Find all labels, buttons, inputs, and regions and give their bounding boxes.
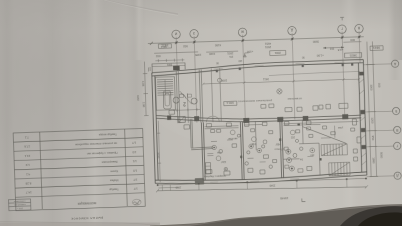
chain node squares — [157, 178, 367, 186]
secondary dim chain segments — [154, 52, 198, 53]
svg-text:+4,8: +4,8 — [337, 48, 343, 52]
boxed label right — [345, 53, 362, 58]
svg-text:900: 900 — [350, 38, 355, 42]
svg-text:3Ф21: 3Ф21 — [373, 46, 381, 50]
upper partitions — [176, 68, 221, 123]
header symbol right — [132, 199, 141, 205]
left end small dim marks — [158, 184, 178, 190]
svg-text:14,7: 14,7 — [25, 191, 31, 195]
bottom dimension line2 — [156, 179, 368, 195]
box below midwall — [184, 125, 190, 129]
svg-text:экспликация: экспликация — [78, 201, 97, 206]
right dim texts rotated — [369, 83, 384, 164]
svg-text:З: З — [193, 31, 195, 35]
main top dimension line — [148, 37, 364, 44]
svg-text:1/2: 1/2 — [133, 168, 137, 172]
svg-text:1890: 1890 — [220, 79, 227, 83]
label box L4 — [224, 101, 237, 106]
right stair lower — [329, 162, 350, 176]
table frame — [13, 128, 145, 210]
label box L1 — [158, 43, 171, 48]
svg-text:Г: Г — [341, 26, 343, 30]
equipment circles left room — [212, 143, 298, 174]
small circle near hall dim — [217, 78, 221, 82]
right vertical dim lines — [365, 41, 378, 176]
svg-text:002: 002 — [155, 54, 160, 58]
equipment rects — [204, 119, 362, 176]
dark fixture dots — [213, 123, 322, 170]
right axis circle B2 — [392, 107, 399, 114]
window sills top wall — [214, 62, 345, 69]
table column lines — [40, 129, 128, 209]
bottom shadow under paper edge — [150, 205, 402, 227]
svg-text:2020: 2020 — [156, 152, 160, 159]
entrance door dark block bottom wall — [195, 178, 204, 184]
lower-left partition — [190, 118, 213, 149]
right stair upper — [321, 144, 347, 156]
room number bubbles — [215, 127, 315, 160]
svg-text:Тамбур: Тамбур — [109, 188, 119, 192]
tiny ET mark top right — [340, 17, 344, 20]
svg-text:13,1: 13,1 — [24, 154, 30, 158]
axis circle A3 — [238, 28, 247, 37]
svg-text:3Ф21: 3Ф21 — [349, 53, 357, 57]
bottom edge dim left — [0, 223, 160, 227]
top dimension ticks — [150, 35, 361, 45]
right wall axis node blocks — [359, 72, 366, 149]
svg-text:300: 300 — [377, 83, 381, 88]
tiny labels near top wall — [215, 55, 304, 63]
svg-text:17,6: 17,6 — [24, 145, 30, 149]
faint fold line left bottom — [0, 222, 160, 226]
secondary chain between A5-A6 — [343, 41, 361, 44]
svg-text:4,1: 4,1 — [26, 172, 31, 176]
cabinet row above midwall — [261, 102, 348, 113]
boxed 2001 label — [270, 50, 286, 55]
window sills bottom wall — [210, 176, 340, 183]
svg-text:отметках: отметках — [287, 97, 302, 101]
interior dimension line in hall — [202, 78, 360, 85]
room label texts lower — [202, 126, 345, 178]
svg-text:1150: 1150 — [136, 95, 140, 101]
right axis leader lines — [363, 64, 395, 177]
ramp diagonal line — [303, 125, 347, 144]
table cell texts: numbers column — [132, 141, 138, 191]
svg-text:2901: 2901 — [264, 45, 271, 49]
right axis circle B1 — [391, 60, 398, 67]
table cell texts: areas column — [24, 135, 32, 194]
svg-text:главный арх.: главный арх. — [13, 203, 26, 206]
right axis circle B5 — [394, 172, 401, 179]
top-left fold crease — [104, 0, 178, 14]
svg-text:4,05: 4,05 — [141, 81, 145, 87]
svg-text:19445: 19445 — [280, 196, 289, 200]
exterior bottom wall — [155, 172, 367, 186]
svg-text:2,96: 2,96 — [141, 102, 145, 108]
svg-text:2001 г.: 2001 г. — [16, 207, 23, 209]
svg-text:1,9: 1,9 — [25, 163, 30, 167]
dark corner blob bottom-right — [340, 206, 402, 226]
svg-text:2001: 2001 — [274, 51, 281, 55]
svg-text:1860: 1860 — [175, 186, 181, 190]
door jamb box above midwall — [169, 110, 175, 114]
wc fixture circle 2 — [191, 98, 197, 104]
door block on midwall — [178, 117, 185, 123]
axis leader lines vertical — [176, 31, 362, 123]
shelf lines left room — [204, 124, 263, 159]
svg-text:1/7: 1/7 — [133, 187, 137, 191]
svg-text:1200: 1200 — [370, 117, 374, 124]
axis circle A5 — [338, 25, 347, 34]
stamp box — [8, 199, 30, 211]
axis circle A4 — [288, 26, 297, 35]
hall light patch — [142, 40, 382, 150]
door arcs corridor — [206, 116, 212, 122]
extra partition x212 — [211, 68, 213, 122]
svg-text:4150: 4150 — [214, 43, 221, 47]
svg-text:НВУ: НВУ — [275, 142, 280, 145]
fixture column lower-left — [205, 162, 210, 174]
svg-text:1/1: 1/1 — [132, 159, 136, 163]
table row lines — [13, 138, 144, 198]
extra equipment specks lower band — [207, 125, 358, 171]
exterior right wall — [358, 60, 367, 176]
svg-text:3900: 3900 — [312, 40, 319, 44]
svg-text:902: 902 — [183, 44, 188, 48]
circled-x symbol upper room — [277, 89, 282, 94]
porch hatch ticks — [148, 67, 150, 72]
dim line node dots — [175, 36, 360, 44]
dimension text top row — [155, 38, 355, 63]
wc dim chain — [173, 108, 200, 112]
svg-text:зал: зал — [310, 153, 315, 156]
svg-text:1190: 1190 — [209, 52, 216, 56]
elevation flag mark — [243, 53, 249, 57]
svg-text:+1,90: +1,90 — [316, 53, 324, 57]
svg-text:302: 302 — [290, 135, 295, 138]
svg-text:Г: Г — [396, 144, 398, 148]
axis circle A1 — [172, 30, 181, 39]
interior dim vertical left — [157, 121, 162, 183]
stair fixture (boiler) — [163, 91, 171, 109]
svg-text:1385: 1385 — [195, 53, 202, 57]
axis circle A2 — [190, 30, 199, 39]
svg-text:Кухня: Кухня — [110, 169, 118, 173]
svg-text:2340: 2340 — [269, 184, 275, 188]
left vertical dim line — [142, 62, 148, 116]
small sink rects — [179, 94, 183, 97]
bottom corner mark — [302, 198, 306, 201]
exterior left wall — [152, 73, 158, 184]
stairwell box — [155, 77, 175, 111]
porch protrusion top-left — [152, 63, 185, 74]
svg-text:3000: 3000 — [369, 84, 373, 91]
svg-text:1890: 1890 — [371, 157, 375, 164]
svg-text:3411: 3411 — [160, 45, 167, 49]
inner parallel line right of hall — [269, 71, 360, 75]
svg-text:1/3: 1/3 — [132, 150, 136, 154]
right wall hatch ticks — [359, 79, 366, 165]
svg-text:2001: 2001 — [227, 51, 234, 55]
interior mid wall — [156, 109, 361, 125]
mid wall column blocks — [194, 111, 348, 124]
table cell texts: names column — [74, 132, 118, 193]
svg-text:1м: 1м — [300, 158, 303, 161]
exterior top wall (warped) — [152, 59, 364, 76]
svg-text:1/7: 1/7 — [132, 141, 136, 145]
svg-text:согласовано: согласовано — [13, 200, 26, 202]
porch door dark block — [173, 66, 180, 71]
svg-text:100.1: 100.1 — [226, 101, 234, 105]
svg-text:04м: 04м — [251, 142, 256, 145]
wc door diagonal — [180, 91, 192, 105]
svg-text:автобак: автобак — [227, 137, 237, 140]
lower partitions — [201, 119, 320, 181]
svg-text:7,1: 7,1 — [24, 135, 29, 139]
svg-text:1/7: 1/7 — [133, 178, 137, 182]
label box L3 — [370, 46, 383, 51]
svg-text:302: 302 — [329, 47, 334, 51]
right axis circle B3 — [393, 126, 400, 133]
svg-text:2: 2 — [183, 101, 186, 107]
porch dim ticks row — [155, 58, 184, 62]
bottom dim chain line1 — [157, 178, 366, 185]
svg-text:+150: +150 — [247, 50, 254, 54]
room text big hall — [237, 97, 302, 104]
wc fixture circle 1 — [173, 97, 179, 103]
counter line lower band right — [283, 121, 358, 125]
svg-text:Юм: Юм — [217, 151, 222, 154]
paper edge curve line — [150, 205, 402, 227]
right axis circle B4 — [393, 142, 400, 149]
svg-text:8,28: 8,28 — [25, 181, 31, 185]
svg-text:3881: 3881 — [166, 63, 172, 66]
axis circle A6 — [355, 24, 364, 33]
svg-text:«Пульс»: «Пульс» — [274, 147, 284, 150]
right edge shade top — [390, 0, 402, 60]
svg-text:Замерочная: Замерочная — [101, 160, 117, 165]
svg-text:5000: 5000 — [379, 152, 383, 159]
left soft shade — [0, 0, 170, 170]
svg-text:Мойка: Мойка — [110, 178, 119, 182]
wrinkle streaks — [40, 0, 65, 226]
svg-text:950: 950 — [371, 136, 375, 141]
midwall dark block left — [167, 115, 171, 120]
svg-text:12м²: 12м² — [221, 160, 227, 163]
left room small rects — [284, 127, 312, 173]
window flag marks below top wall — [216, 63, 354, 72]
svg-text:Тамбур входа: Тамбур входа — [98, 132, 116, 137]
svg-text:3411: 3411 — [263, 77, 270, 81]
